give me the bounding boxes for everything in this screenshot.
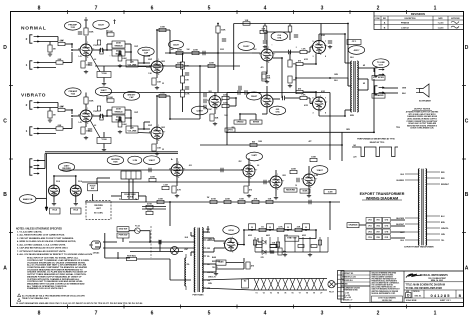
capacitor C8 .1 <box>283 96 285 100</box>
resistor R1 68K <box>58 41 65 46</box>
svg-text:YEL: YEL <box>207 256 210 258</box>
vibrato optocoupler <box>225 128 235 132</box>
junction <box>130 51 132 53</box>
wire <box>213 248 215 252</box>
resistor R36 470K <box>210 198 217 204</box>
resistor R22 470 <box>262 72 271 79</box>
wire <box>37 67 56 69</box>
AC plug P1 <box>89 241 101 249</box>
wire <box>391 225 405 227</box>
label power tube callout lower <box>269 106 285 115</box>
svg-text:GRN: GRN <box>402 88 407 90</box>
ground <box>102 82 106 86</box>
resistor R46 1K <box>259 227 266 232</box>
label normal preamp tube callout <box>65 21 81 30</box>
svg-text:12AX7: 12AX7 <box>196 109 203 112</box>
wire <box>202 231 208 233</box>
svg-text:B: B <box>465 192 469 198</box>
wire <box>309 47 311 52</box>
svg-text:1: 1 <box>216 94 217 96</box>
wire <box>329 110 331 160</box>
svg-text:8. ALL VOLTAGES MEASURED W/ R: 8. ALL VOLTAGES MEASURED W/ RESPECT TO G… <box>17 253 92 256</box>
svg-text:47K: 47K <box>254 198 258 201</box>
wire <box>37 41 58 43</box>
svg-text:1: 1 <box>232 237 233 239</box>
wire <box>182 69 184 76</box>
svg-text:NO CONN.: NO CONN. <box>94 213 103 215</box>
svg-text:4.7K: 4.7K <box>177 188 182 191</box>
ground <box>288 84 292 88</box>
junction <box>149 241 151 243</box>
wire <box>107 109 112 111</box>
wire <box>182 53 184 62</box>
resistor R3 1M <box>48 45 56 52</box>
wire <box>329 93 331 111</box>
wire <box>285 97 300 99</box>
svg-text:8Ω SPEAKER: 8Ω SPEAKER <box>419 100 431 103</box>
svg-text:220K: 220K <box>193 50 198 52</box>
wire <box>207 226 209 232</box>
svg-text:VIBRATO: VIBRATO <box>21 93 46 99</box>
svg-text:.02: .02 <box>257 165 259 167</box>
wire <box>170 279 191 281</box>
wire <box>71 110 73 114</box>
svg-text:PERFORMANCE WAVEFORMS AT TP30: PERFORMANCE WAVEFORMS AT TP30 <box>357 138 395 141</box>
wire <box>243 230 245 245</box>
wire <box>258 241 262 243</box>
svg-text:D: D <box>465 45 469 51</box>
svg-text:8: 8 <box>87 123 88 125</box>
svg-text:RCA CONN: RCA CONN <box>124 193 136 196</box>
svg-text:68K: 68K <box>58 125 62 127</box>
resistor C44 <box>97 106 100 111</box>
svg-text:220K: 220K <box>147 210 152 212</box>
junction <box>341 144 343 146</box>
wire bus <box>199 66 201 119</box>
svg-text:8: 8 <box>320 54 321 56</box>
junction <box>344 33 346 35</box>
wire <box>358 89 368 91</box>
capacitor C15 <box>294 35 298 37</box>
wire <box>233 24 235 71</box>
bias test box <box>216 260 226 265</box>
diode CR1 <box>262 240 266 244</box>
wire mixing bus lower <box>95 65 240 67</box>
svg-text:12AX7: 12AX7 <box>98 24 105 27</box>
resistor R28 470 <box>296 88 303 94</box>
svg-text:8: 8 <box>38 311 41 316</box>
svg-text:3.3M: 3.3M <box>328 191 333 193</box>
resistor R8 100K <box>159 27 166 32</box>
wire <box>130 44 132 63</box>
wire <box>248 158 250 165</box>
svg-text:EXPORT TRANSFORMER: EXPORT TRANSFORMER <box>360 192 405 196</box>
resistor R16 220K <box>176 50 183 55</box>
wire <box>347 78 349 86</box>
wire <box>373 68 375 72</box>
svg-text:A: A <box>465 265 469 271</box>
junction <box>315 229 317 231</box>
wire <box>243 263 245 270</box>
wire <box>49 42 51 46</box>
wire <box>138 132 151 135</box>
capacitor C30 <box>119 51 121 55</box>
svg-text:.047: .047 <box>170 48 173 51</box>
resistor R10 68K <box>56 125 63 130</box>
wire <box>373 79 375 132</box>
junction <box>344 115 346 117</box>
svg-text:12AX7: 12AX7 <box>149 159 156 162</box>
svg-text:GTA: GTA <box>275 111 280 114</box>
RCA jack box 1 <box>50 208 61 214</box>
svg-text:470: 470 <box>261 66 264 69</box>
svg-text:5: 5 <box>313 41 314 43</box>
wire <box>90 54 100 72</box>
ground <box>328 45 332 49</box>
wire <box>106 96 108 101</box>
wire <box>119 117 121 121</box>
svg-text:*1500: *1500 <box>101 139 107 141</box>
junction <box>329 201 331 203</box>
heater wiring ladder <box>253 279 328 291</box>
capacitor C10 .02 <box>204 99 206 103</box>
resistor C43 <box>100 49 103 54</box>
potentiometer speed <box>234 120 246 124</box>
svg-text:3.3M: 3.3M <box>163 185 168 187</box>
svg-text:25: 25 <box>162 83 164 85</box>
svg-text:220K: 220K <box>177 50 182 52</box>
speaker label <box>372 94 385 99</box>
waveform trace <box>352 147 398 157</box>
svg-text:8: 8 <box>38 6 41 12</box>
capacitor C33 <box>239 86 241 90</box>
svg-text:20: 20 <box>287 227 289 229</box>
wire <box>191 251 195 253</box>
resistor R4 100K <box>84 28 94 35</box>
transformer T1 primary winding <box>185 254 186 290</box>
svg-text:100K: 100K <box>108 97 113 99</box>
junction <box>143 62 145 64</box>
svg-text:10K: 10K <box>245 20 249 22</box>
wire <box>37 133 56 135</box>
label reverb cap callout 2 <box>128 156 142 164</box>
RCA jack box 2 <box>71 208 82 214</box>
wire <box>202 251 214 253</box>
svg-text:3: 3 <box>321 6 324 12</box>
wire <box>130 251 183 253</box>
capacitor C31 <box>203 51 205 55</box>
svg-text:6. CAP AND BE INSTALLED IN 12: 6. CAP AND BE INSTALLED IN 120V UNITS ON… <box>17 247 69 250</box>
wire <box>391 231 405 233</box>
wire <box>358 78 368 80</box>
resistor R63 10K <box>243 20 250 25</box>
junction <box>71 115 73 117</box>
resistor R29 56K <box>210 114 219 121</box>
junction <box>106 49 108 51</box>
ground <box>155 86 159 90</box>
wire <box>273 57 282 59</box>
potentiometer treble vibrato <box>112 107 125 114</box>
svg-text:TREBLE: TREBLE <box>114 111 123 113</box>
wire <box>129 230 135 232</box>
wire <box>71 52 73 63</box>
svg-text:7: 7 <box>325 98 326 100</box>
label transformer primary <box>184 237 188 251</box>
wire <box>71 118 73 129</box>
wire negative feedback lower <box>200 144 342 146</box>
wire <box>138 128 150 130</box>
border zone letters <box>3 45 469 271</box>
junction <box>130 117 132 119</box>
wire <box>238 244 245 246</box>
wire <box>138 62 150 64</box>
svg-text:GZ34: GZ34 <box>228 229 234 232</box>
capacitor C1 <box>78 32 82 34</box>
svg-text:100K: 100K <box>239 199 244 201</box>
resistor R48 22K <box>295 227 302 232</box>
output notes text <box>406 109 439 130</box>
svg-text:8: 8 <box>87 57 88 59</box>
jack J4 vibrato input 1 <box>26 127 40 135</box>
wire <box>72 49 80 51</box>
label line out callout <box>373 59 389 68</box>
svg-text:CP33: CP33 <box>368 226 372 228</box>
wire <box>226 93 228 133</box>
ground <box>52 202 56 206</box>
resistor R53 <box>288 26 292 32</box>
wire <box>267 31 290 33</box>
lamp socket <box>171 247 179 255</box>
junction <box>75 175 77 177</box>
wire <box>128 179 130 199</box>
svg-text:20: 20 <box>251 227 253 229</box>
svg-text:4: 4 <box>264 311 267 316</box>
wire <box>335 283 337 285</box>
svg-text:1: 1 <box>250 163 251 165</box>
svg-text:2. ALL RESISTORS ARE 1/2 W CA: 2. ALL RESISTORS ARE 1/2 W CARBON FILM. <box>17 234 65 237</box>
wire <box>240 113 256 115</box>
svg-text:10: 10 <box>295 185 297 187</box>
svg-text:220K: 220K <box>225 199 230 201</box>
speaker SP1 <box>416 84 429 97</box>
wire <box>37 36 58 38</box>
svg-text:1M: 1M <box>293 63 296 65</box>
label reverb driver callout <box>58 163 74 172</box>
label reverb tank callout <box>20 195 36 204</box>
wire <box>125 117 131 119</box>
wire <box>202 288 252 290</box>
svg-text:4: 4 <box>264 6 267 12</box>
resistor R31 220K <box>222 103 229 108</box>
label reverb unit <box>94 205 103 215</box>
power transformer primary stubs <box>191 236 195 252</box>
label tremolo callout <box>191 106 207 115</box>
capacitor C2 25 <box>88 63 92 65</box>
wire <box>281 58 283 98</box>
resistor R42 470 <box>244 186 253 193</box>
wire <box>252 52 261 54</box>
wire <box>96 178 98 184</box>
resistor R35 100K <box>157 199 164 204</box>
svg-text:INTEN: INTEN <box>253 122 260 124</box>
footswitch box <box>88 184 98 191</box>
wire <box>303 91 316 93</box>
junction <box>176 169 178 171</box>
junction <box>106 115 108 117</box>
svg-text:10M: 10M <box>224 115 228 117</box>
svg-text:C: C <box>465 118 469 124</box>
svg-text:6: 6 <box>151 311 154 316</box>
label rectifier callout <box>223 226 239 235</box>
svg-text:500K: 500K <box>303 191 308 193</box>
chassis boundary dashed line <box>150 226 152 258</box>
svg-text:.1: .1 <box>295 93 296 95</box>
revisions table <box>374 12 464 30</box>
wire <box>157 95 170 97</box>
svg-text:5: 5 <box>208 6 211 12</box>
svg-text:1: 1 <box>158 125 159 127</box>
svg-text:1M: 1M <box>131 62 134 64</box>
wire <box>344 34 346 63</box>
wire <box>289 52 291 60</box>
wire <box>37 160 45 162</box>
capacitor C13 .003 <box>297 178 299 182</box>
svg-text:8: 8 <box>325 56 326 58</box>
ground <box>274 196 278 200</box>
resistor R27 470 <box>296 60 303 66</box>
wire <box>243 258 245 262</box>
svg-text:2: 2 <box>377 311 380 316</box>
svg-text:4.7K: 4.7K <box>278 226 283 229</box>
export transformer right wires <box>426 172 450 242</box>
wire <box>303 63 316 65</box>
svg-text:120VAC: 120VAC <box>93 252 100 255</box>
filter capacitors C20-C23 <box>249 224 310 230</box>
svg-text:7: 7 <box>326 45 327 47</box>
wire <box>103 66 105 72</box>
transformer T1 power transformer <box>194 228 203 292</box>
wire <box>182 83 184 90</box>
svg-text:FOOT: FOOT <box>90 185 97 187</box>
svg-text:100K: 100K <box>160 93 165 95</box>
svg-text:STANDARD 120V 60 HZ UNITS ONLY: STANDARD 120V 60 HZ UNITS ONLY. <box>27 287 64 290</box>
wire <box>382 87 398 89</box>
wire <box>226 262 244 264</box>
wire <box>264 24 266 27</box>
svg-text:12 INCH 8 OHM JENSEN C12K.: 12 INCH 8 OHM JENSEN C12K. <box>410 128 435 130</box>
tube V7 rectifier GZ34 <box>225 238 238 251</box>
wire <box>117 252 119 259</box>
svg-text:V5: V5 <box>284 293 286 295</box>
svg-text:BLK/RED: BLK/RED <box>397 180 405 182</box>
resistor R57 82K <box>262 74 271 81</box>
wire <box>275 188 277 196</box>
ground <box>84 70 88 74</box>
resistor R19 220K <box>208 63 215 68</box>
wire <box>262 113 267 115</box>
svg-text:RED/YEL: RED/YEL <box>207 240 214 242</box>
svg-text:ZONE: ZONE <box>375 18 379 20</box>
tube V3B tremolo osc <box>209 96 221 108</box>
label recovery callout <box>246 152 262 161</box>
wire <box>202 237 214 239</box>
wire <box>309 98 311 104</box>
svg-text:22K: 22K <box>297 227 301 229</box>
wire <box>125 51 131 53</box>
svg-text:7-2-93: 7-2-93 <box>438 23 445 25</box>
wire <box>71 44 73 48</box>
potentiometer treble normal <box>112 41 125 48</box>
svg-text:GRN 6.3V: GRN 6.3V <box>208 277 217 279</box>
capacitor C6 <box>222 39 226 41</box>
ground <box>102 148 106 152</box>
wire <box>169 30 171 53</box>
wire <box>213 238 215 241</box>
svg-text:220K: 220K <box>223 95 228 97</box>
svg-text:7: 7 <box>256 169 257 171</box>
resistor R65 <box>270 245 276 248</box>
wire B+ tick <box>84 17 88 20</box>
wire <box>140 230 150 232</box>
svg-text:GTA: GTA <box>277 36 282 39</box>
jack J5 ext speaker jack <box>375 68 385 76</box>
svg-text:BIAS: BIAS <box>219 261 225 264</box>
junction <box>289 51 291 53</box>
svg-text:1: 1 <box>277 174 278 176</box>
svg-text:P4: P4 <box>135 198 137 201</box>
svg-text:UNIT: UNIT <box>96 208 101 210</box>
svg-text:100K: 100K <box>158 199 163 201</box>
svg-text:8: 8 <box>325 113 326 115</box>
orange wire box <box>347 223 359 228</box>
svg-text:PILOT: PILOT <box>329 292 334 294</box>
svg-text:L93732: L93732 <box>401 27 409 29</box>
resistor R61 <box>276 242 279 247</box>
resistor R45 HUM BAL <box>127 255 137 261</box>
wire <box>217 24 219 27</box>
svg-text:PAN: PAN <box>113 160 118 163</box>
junction <box>143 128 145 130</box>
potentiometer bass vibrato <box>112 115 125 122</box>
svg-text:*1500: *1500 <box>101 73 107 75</box>
wire <box>202 279 252 281</box>
svg-text:WHT: WHT <box>184 249 188 251</box>
wire <box>345 109 351 111</box>
wire bottom bus <box>85 201 340 203</box>
svg-text:C: C <box>3 118 7 124</box>
power transformer secondary labels <box>202 232 213 290</box>
pin numbers power tubes <box>313 41 327 115</box>
resistor R40 10K <box>266 199 273 204</box>
wire channel divider lower <box>45 153 178 155</box>
svg-text:CP31: CP31 <box>376 220 380 222</box>
ground <box>48 119 52 123</box>
svg-text:YEL: YEL <box>441 240 444 242</box>
wire <box>299 238 316 240</box>
svg-text:12AT7: 12AT7 <box>251 154 258 157</box>
svg-text:7: 7 <box>93 114 94 116</box>
resistor R21 82K <box>260 29 267 34</box>
capacitor C18 <box>185 87 189 89</box>
wire <box>318 34 320 41</box>
fuse F1 <box>135 225 141 234</box>
svg-text:7: 7 <box>326 102 327 104</box>
resistor R18 220K <box>176 63 183 68</box>
svg-text:56K: 56K <box>215 117 219 119</box>
wire <box>241 92 245 94</box>
svg-text:GRN: GRN <box>207 280 210 282</box>
svg-text:220K: 220K <box>209 63 214 65</box>
